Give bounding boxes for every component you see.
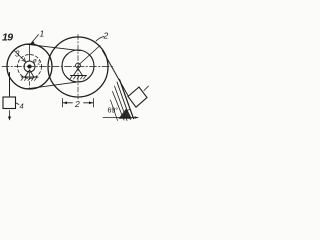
svg-text:19: 19: [2, 32, 13, 44]
svg-text:4: 4: [20, 102, 24, 111]
svg-text:2: 2: [37, 61, 41, 67]
svg-text:3: 3: [15, 50, 20, 59]
svg-text:2: 2: [103, 31, 109, 41]
svg-text:69°: 69°: [108, 107, 119, 115]
svg-text:ø: ø: [33, 59, 37, 65]
svg-text:1: 1: [40, 29, 45, 39]
svg-text:2: 2: [74, 99, 80, 109]
